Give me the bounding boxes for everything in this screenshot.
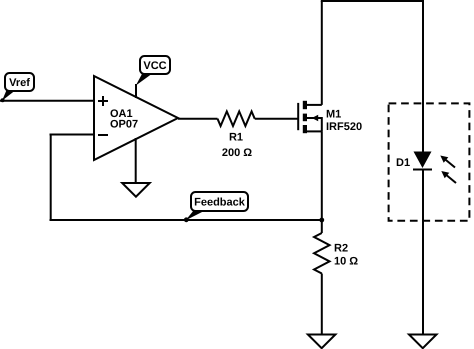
wire VCC stub xyxy=(135,84,137,98)
wire Vref to op-amp non-inverting input xyxy=(0,100,94,102)
photodiode D1 triangle xyxy=(414,152,432,169)
resistor R2 zigzag xyxy=(314,233,330,274)
svg-text:M1: M1 xyxy=(326,109,341,121)
wire junction to R2 xyxy=(321,220,323,233)
svg-text:D1: D1 xyxy=(396,157,410,169)
svg-text:OP07: OP07 xyxy=(110,119,138,131)
transistor M1 source lead xyxy=(306,130,322,132)
wire op-amp ground stub xyxy=(135,138,137,183)
op-amp plus symbol xyxy=(98,96,108,106)
photodiode D1 light arrow upper shaft xyxy=(444,158,456,168)
op-amp OA1 triangle xyxy=(94,76,178,160)
svg-text:R1: R1 xyxy=(229,132,243,144)
wire R2 to ground xyxy=(321,274,323,335)
wire D1 to right ground xyxy=(422,170,424,335)
wire MOSFET source down to junction xyxy=(321,131,323,220)
transistor M1 drain lead xyxy=(306,104,322,106)
transistor M1 gate bar xyxy=(297,103,299,130)
photodiode D1 light arrow lower shaft xyxy=(445,174,457,184)
op-amp minus symbol xyxy=(98,134,108,136)
photodiode D1 arrow head upper xyxy=(440,156,448,163)
net flag Feedback xyxy=(184,192,248,222)
svg-text:Vref: Vref xyxy=(9,77,30,89)
transistor M1 body arrow head xyxy=(312,115,318,121)
net flag VCC xyxy=(136,56,170,86)
ground below op-amp xyxy=(122,183,150,197)
svg-text:VCC: VCC xyxy=(143,60,166,72)
wire right vertical down to D1 xyxy=(422,1,424,152)
svg-text:Feedback: Feedback xyxy=(194,197,246,209)
ground right xyxy=(409,335,437,349)
dashed enclosure box xyxy=(389,103,470,220)
wire inverting input stub xyxy=(50,134,95,136)
wire feedback left vertical xyxy=(50,135,52,221)
photodiode D1 arrow head lower xyxy=(441,171,449,178)
ground below R2 xyxy=(308,335,336,349)
resistor R1 zigzag xyxy=(218,111,255,126)
svg-text:IRF520: IRF520 xyxy=(326,121,362,133)
wire top rail xyxy=(321,0,424,2)
wire R1 to MOSFET gate xyxy=(255,118,298,120)
svg-text:200 Ω: 200 Ω xyxy=(222,147,252,159)
transistor M1 body lead with arrow xyxy=(306,118,322,131)
svg-text:R2: R2 xyxy=(334,243,348,255)
junction dot feedback/source/R2 xyxy=(319,218,324,223)
photodiode D1 cathode bar xyxy=(413,169,432,171)
wire feedback horizontal xyxy=(50,219,322,221)
transistor M1 channel bars xyxy=(303,101,307,133)
svg-text:10 Ω: 10 Ω xyxy=(334,256,358,268)
wire MOSFET drain up xyxy=(321,1,323,105)
wire op-amp output to R1 xyxy=(178,118,218,120)
net flag Vref xyxy=(1,73,34,102)
